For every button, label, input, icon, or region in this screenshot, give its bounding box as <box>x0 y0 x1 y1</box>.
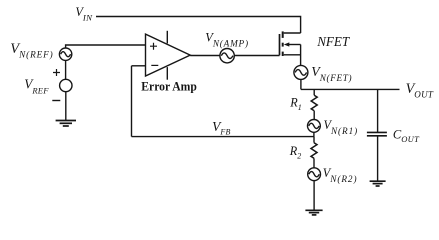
op-amp U1 error amplifier <box>146 31 191 80</box>
wire op-amp output <box>190 55 220 57</box>
wire VFB line <box>132 136 315 138</box>
svg-text:VFB: VFB <box>212 119 231 136</box>
svg-text:COUT: COUT <box>393 128 420 144</box>
label − polarity of VREF <box>52 100 60 102</box>
ground (reference branch) <box>56 121 76 127</box>
wire NFET source to VOUT node <box>300 79 302 89</box>
ground (divider branch) <box>305 210 322 215</box>
svg-text:VN(REF): VN(REF) <box>10 41 53 60</box>
svg-text:Error Amp: Error Amp <box>141 79 197 94</box>
svg-text:VN(R2): VN(R2) <box>323 166 358 184</box>
noise source VN(R1) <box>308 120 321 133</box>
svg-text:VN(FET): VN(FET) <box>311 64 352 83</box>
svg-text:VOUT: VOUT <box>406 81 434 100</box>
resistor R2 <box>311 137 317 168</box>
transistor NFET pass device <box>280 31 301 65</box>
svg-text:VREF: VREF <box>24 77 49 96</box>
svg-text:R1: R1 <box>289 95 301 112</box>
noise source VN(R2) <box>308 168 321 181</box>
noise source VN(AMP) <box>220 49 234 63</box>
wire op-amp inverting input <box>132 65 146 67</box>
dc source VREF <box>60 79 72 91</box>
wire feedback vertical <box>131 66 133 137</box>
svg-text:VN(AMP): VN(AMP) <box>205 31 249 49</box>
noise source VN(REF) <box>59 48 71 60</box>
noise source VN(FET) <box>294 65 308 79</box>
svg-text:VIN: VIN <box>75 5 93 22</box>
wire VIN rail from label to NFET drain <box>96 17 301 34</box>
ground (output capacitor) <box>370 181 386 186</box>
wire COUT to ground <box>377 136 379 181</box>
svg-text:R2: R2 <box>289 144 301 161</box>
wire VN(R1) to VFB junction <box>313 132 315 136</box>
svg-text:NFET: NFET <box>316 35 350 50</box>
label + polarity of VREF <box>53 69 60 76</box>
wire VOUT node to COUT <box>377 89 379 132</box>
resistor R1 <box>311 89 317 119</box>
svg-text:VN(R1): VN(R1) <box>324 118 359 136</box>
wire VN(REF) to op-amp noninverting input <box>66 45 146 48</box>
capacitor COUT <box>367 132 387 135</box>
wire VN(REF) to VREF <box>65 60 67 79</box>
wire VREF to ground <box>65 92 67 121</box>
wire VOUT node line <box>301 88 400 90</box>
wire VN(AMP) to NFET gate <box>234 55 279 57</box>
wire VN(R2) to ground <box>313 181 315 211</box>
